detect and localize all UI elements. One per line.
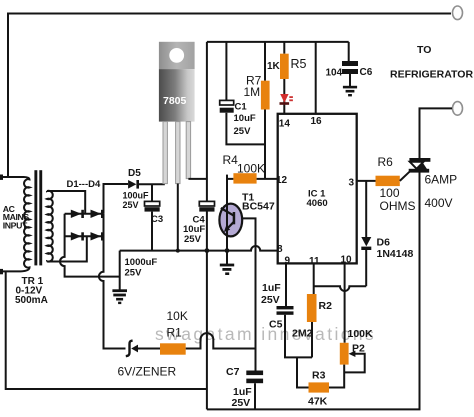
node dot C4 gnd bbox=[205, 248, 210, 253]
transformer TR1 secondary winding bbox=[47, 191, 53, 262]
+5V top bus bbox=[207, 41, 349, 43]
resistor R5 1K bbox=[283, 42, 285, 54]
transformer TR1 core bbox=[34, 170, 37, 265]
wire pin9 to C5 bbox=[285, 263, 287, 306]
wire left vertical lower + bottom-left bus bbox=[6, 271, 207, 389]
svg-text:400V: 400V bbox=[425, 196, 453, 210]
svg-text:25V: 25V bbox=[234, 126, 252, 137]
svg-text:16: 16 bbox=[311, 116, 323, 127]
svg-text:25V: 25V bbox=[123, 200, 139, 210]
svg-text:500mA: 500mA bbox=[15, 295, 48, 306]
wire bridge left vertical with hop over secondary wire, to DC minus rail bbox=[60, 214, 120, 277]
svg-text:R3: R3 bbox=[312, 370, 326, 382]
resistor R6 100 OHMS bbox=[376, 176, 400, 186]
wire C5/R2 node down to R3 left bbox=[297, 357, 309, 387]
svg-text:R5: R5 bbox=[291, 57, 307, 71]
IC U1 4060 body bbox=[278, 114, 357, 264]
diode D3 bbox=[71, 232, 82, 240]
P2 wiper arrow and loop bbox=[344, 354, 365, 373]
svg-text:1N4148: 1N4148 bbox=[377, 248, 414, 260]
capacitor C1 bbox=[220, 100, 234, 105]
wire top bus mains to refrigerator terminal bbox=[8, 14, 451, 178]
svg-text:R6: R6 bbox=[378, 155, 394, 169]
svg-text:OHMS: OHMS bbox=[380, 199, 416, 213]
svg-text:TO: TO bbox=[417, 44, 431, 56]
capacitor C3 bbox=[145, 201, 160, 206]
svg-text:100: 100 bbox=[380, 186, 400, 200]
wire secondary top to bridge bbox=[47, 191, 85, 214]
svg-text:R2: R2 bbox=[319, 300, 333, 312]
bridge rectifier row 2 wire bbox=[65, 235, 104, 237]
diode D6 1N4148 bbox=[365, 181, 367, 237]
wire pin11 to R2 top bbox=[313, 263, 315, 294]
capacitor C3 stub bbox=[151, 184, 153, 201]
ground symbol (1000uF node) bbox=[112, 289, 127, 304]
svg-text:8: 8 bbox=[277, 244, 283, 255]
wire bridge right vertical DC plus, up to D5, down with hop to zener line bbox=[104, 184, 129, 214]
svg-text:100K: 100K bbox=[237, 162, 265, 176]
ground symbol C6 bbox=[343, 86, 357, 97]
node dot T1 emitter bbox=[225, 248, 230, 253]
svg-text:6V/ZENER: 6V/ZENER bbox=[118, 365, 177, 379]
svg-text:R4: R4 bbox=[223, 153, 239, 167]
7805 legs bbox=[163, 122, 167, 184]
zener diode 6V bbox=[126, 341, 133, 357]
svg-text:3: 3 bbox=[349, 178, 355, 189]
triac 6AMP 400V bbox=[419, 158, 421, 172]
bridge rectifier row 1 wire bbox=[65, 213, 104, 215]
wire T1 collector bbox=[242, 218, 256, 370]
svg-text:10: 10 bbox=[341, 255, 353, 266]
svg-text:C1: C1 bbox=[235, 102, 248, 113]
svg-text:1000uF: 1000uF bbox=[125, 257, 158, 268]
ground bus wire with hop over T1 collector line bbox=[120, 246, 278, 251]
svg-text:7805: 7805 bbox=[163, 95, 187, 107]
wire pin10 to P2 bbox=[344, 263, 346, 342]
svg-text:12: 12 bbox=[276, 175, 288, 186]
svg-text:BC547: BC547 bbox=[242, 201, 275, 213]
svg-text:1K: 1K bbox=[267, 61, 281, 72]
svg-text:104: 104 bbox=[326, 68, 343, 79]
svg-text:4060: 4060 bbox=[307, 198, 328, 209]
svg-text:D1---D4: D1---D4 bbox=[67, 179, 101, 190]
svg-text:1M: 1M bbox=[244, 85, 261, 99]
diode D2 bbox=[91, 210, 102, 218]
output terminal upper bbox=[453, 6, 463, 20]
capacitor C6 104 bbox=[348, 42, 350, 61]
svg-text:47K: 47K bbox=[308, 396, 328, 408]
wire P2 bottom to R3 bbox=[329, 365, 344, 388]
wire C1 bottom to R7 vertical bbox=[226, 113, 265, 145]
wire D5 to 7805 input leg bbox=[139, 183, 165, 185]
svg-text:C3: C3 bbox=[151, 214, 163, 225]
svg-text:swagatam innovations: swagatam innovations bbox=[155, 324, 376, 344]
wire 7805 output leg to +5V vertical bbox=[188, 178, 207, 180]
wire pin3 to R6 and D6 bbox=[357, 180, 376, 182]
svg-text:100K: 100K bbox=[348, 328, 374, 340]
wire R1 to T1 collector line, arch hop over C4 vertical bbox=[186, 333, 256, 348]
capacitor C5 bbox=[277, 306, 294, 309]
svg-text:100uF: 100uF bbox=[123, 191, 150, 201]
svg-text:D6: D6 bbox=[377, 237, 391, 249]
transistor T1 BC547 bbox=[219, 204, 242, 237]
node dot 7805 gnd bbox=[176, 249, 180, 253]
wire pin16 stub bbox=[315, 42, 317, 114]
resistor R7 1M bbox=[264, 42, 266, 81]
svg-text:25V: 25V bbox=[125, 268, 143, 279]
resistor R2 2M2 bbox=[307, 294, 317, 322]
svg-text:14: 14 bbox=[279, 119, 291, 130]
wire lower terminal to triac bbox=[420, 108, 453, 158]
resistor R3 47K bbox=[309, 382, 330, 392]
svg-text:C6: C6 bbox=[360, 67, 373, 78]
svg-text:D5: D5 bbox=[128, 168, 141, 179]
wire +5V vertical / C4 line (top bus down to bottom bus) bbox=[206, 42, 208, 202]
svg-text:25V: 25V bbox=[184, 234, 202, 245]
wire AC input top stub bbox=[1, 176, 24, 178]
LED (red) bbox=[280, 94, 288, 103]
diode D4 bbox=[91, 232, 102, 240]
wire 7805 ground leg to ground bus bbox=[177, 184, 179, 251]
svg-text:C7: C7 bbox=[226, 366, 240, 378]
wire R6 to triac gate bbox=[400, 172, 410, 181]
wire ground bus left drop bbox=[119, 251, 121, 290]
svg-text:10K: 10K bbox=[167, 309, 188, 323]
svg-text:R1: R1 bbox=[167, 326, 183, 340]
svg-text:6AMP: 6AMP bbox=[425, 173, 458, 187]
svg-text:10uF: 10uF bbox=[234, 113, 256, 124]
svg-text:25V: 25V bbox=[232, 397, 251, 409]
wire triac down right side to bottom bus bbox=[207, 172, 420, 409]
transformer TR1 primary winding bbox=[21, 177, 30, 271]
potentiometer P2 100K bbox=[340, 343, 349, 365]
capacitor C7 bbox=[246, 371, 263, 376]
svg-text:REFRIGERATOR: REFRIGERATOR bbox=[390, 69, 473, 81]
svg-text:2M2: 2M2 bbox=[292, 328, 313, 340]
wire AC input bottom stub bbox=[1, 270, 21, 272]
wire pin11 branch to D6 bottom with hop under pin10 wire bbox=[314, 286, 367, 291]
voltage regulator 7805 body bbox=[159, 69, 195, 122]
svg-text:1uF: 1uF bbox=[262, 282, 281, 294]
capacitor C1 stub bbox=[225, 42, 227, 100]
ground symbol T1 emitter bbox=[226, 251, 228, 264]
svg-text:25V: 25V bbox=[261, 294, 280, 306]
diode D1 bbox=[71, 210, 82, 218]
resistor R4 100K bbox=[227, 175, 233, 179]
output terminal lower bbox=[453, 102, 463, 116]
resistor R1 10K bbox=[160, 343, 186, 354]
wire secondary bottom to bridge (passes under hop) bbox=[47, 236, 87, 261]
capacitor C4 bbox=[199, 201, 214, 206]
svg-text:C5: C5 bbox=[269, 319, 283, 331]
